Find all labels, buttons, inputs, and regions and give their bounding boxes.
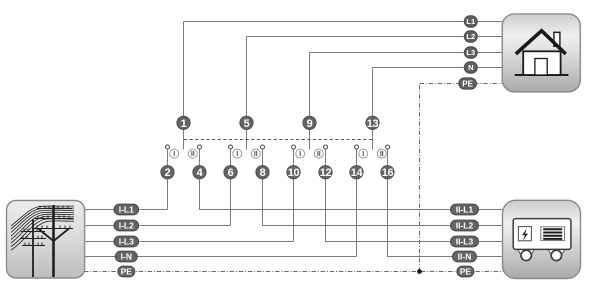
- svg-text:9: 9: [307, 118, 313, 130]
- svg-text:14: 14: [351, 167, 364, 179]
- svg-text:12: 12: [320, 167, 332, 179]
- svg-text:I-N: I-N: [121, 251, 132, 261]
- svg-text:II: II: [254, 151, 258, 158]
- svg-text:L2: L2: [466, 32, 475, 41]
- svg-text:II: II: [380, 151, 384, 158]
- svg-text:1: 1: [181, 118, 187, 130]
- svg-text:II: II: [317, 151, 321, 158]
- svg-text:5: 5: [244, 118, 250, 130]
- svg-text:I-L1: I-L1: [119, 204, 134, 214]
- svg-text:II-N: II-N: [458, 251, 472, 261]
- svg-text:PE: PE: [462, 79, 473, 88]
- svg-text:II-L3: II-L3: [456, 236, 474, 246]
- svg-text:16: 16: [382, 167, 394, 179]
- svg-text:N: N: [468, 63, 473, 72]
- svg-text:I: I: [362, 151, 364, 158]
- svg-text:I-L3: I-L3: [119, 236, 134, 246]
- svg-text:6: 6: [228, 167, 234, 179]
- svg-text:II-L2: II-L2: [456, 220, 474, 230]
- svg-text:II-L1: II-L1: [456, 204, 474, 214]
- svg-text:I: I: [236, 151, 238, 158]
- svg-text:II: II: [191, 151, 195, 158]
- svg-text:I-L2: I-L2: [119, 220, 134, 230]
- svg-text:L3: L3: [466, 48, 475, 57]
- svg-text:PE: PE: [460, 266, 472, 276]
- svg-text:I: I: [173, 151, 175, 158]
- svg-text:PE: PE: [121, 266, 133, 276]
- svg-text:8: 8: [260, 167, 266, 179]
- svg-text:10: 10: [288, 167, 300, 179]
- svg-text:I: I: [299, 151, 301, 158]
- svg-text:L1: L1: [466, 17, 475, 26]
- svg-text:13: 13: [367, 118, 379, 130]
- svg-text:2: 2: [165, 167, 171, 179]
